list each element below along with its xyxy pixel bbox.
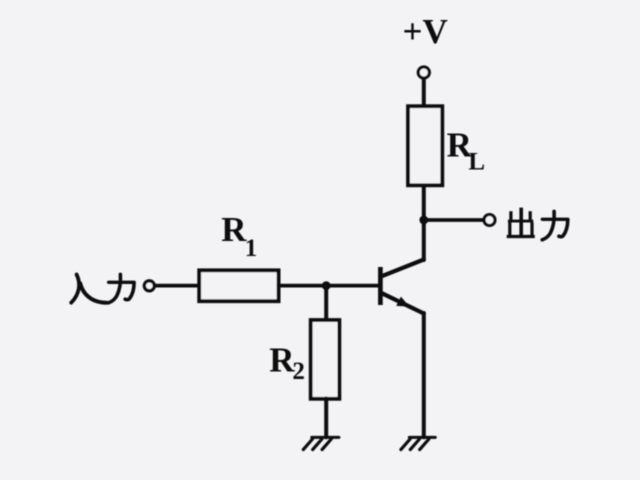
wire RL to collector node bbox=[422, 186, 426, 260]
wire R1 to base node bbox=[279, 284, 379, 288]
transistor Q1 emitter lead bbox=[382, 293, 424, 313]
label 入力 (input) bbox=[71, 274, 134, 302]
svg-text:+V: +V bbox=[403, 12, 448, 51]
svg-text:R: R bbox=[221, 210, 247, 249]
出 lower-left vertical bbox=[508, 224, 511, 235]
svg-text:2: 2 bbox=[292, 358, 305, 385]
label RL bbox=[447, 126, 485, 176]
wire base node down to R2 bbox=[324, 286, 328, 321]
入 left-falling stroke bbox=[71, 275, 79, 303]
ground (R2 side) bbox=[303, 437, 339, 449]
出 bottom horizontal bbox=[508, 235, 533, 238]
svg-text:R: R bbox=[269, 340, 295, 379]
出 center vertical bbox=[519, 209, 523, 235]
出 upper-right vertical bbox=[529, 213, 532, 220]
svg-text:1: 1 bbox=[245, 235, 257, 262]
transistor Q1 emitter arrow bbox=[396, 297, 409, 307]
resistor R2 bbox=[311, 320, 340, 399]
wire emitter to ground bbox=[422, 313, 426, 437]
出 upper-left vertical bbox=[509, 213, 512, 220]
svg-text:L: L bbox=[468, 149, 485, 176]
label 出力 (output) bbox=[508, 209, 568, 239]
入 right-falling stroke bbox=[80, 283, 106, 302]
label R2 bbox=[269, 340, 305, 384]
node base junction bbox=[322, 281, 331, 290]
resistor RL bbox=[408, 106, 442, 185]
wire R2 to ground bbox=[324, 399, 328, 438]
transistor Q1 base bar bbox=[378, 267, 383, 305]
ground (emitter side) bbox=[401, 437, 435, 449]
resistor R1 bbox=[199, 270, 278, 301]
wire input terminal to R1 bbox=[156, 284, 199, 288]
出 lower-right vertical bbox=[530, 224, 533, 235]
力 of 入力 bbox=[109, 274, 135, 302]
出 middle horizontal bbox=[509, 220, 531, 223]
wire node to output terminal bbox=[424, 218, 483, 222]
力 of 出力 bbox=[542, 211, 568, 239]
node collector junction bbox=[419, 216, 428, 225]
transistor Q1 collector lead bbox=[382, 260, 424, 277]
output terminal bbox=[484, 215, 495, 226]
wire +V terminal to RL bbox=[422, 80, 426, 106]
+V supply terminal bbox=[418, 67, 429, 78]
input terminal bbox=[144, 281, 154, 291]
label R1 bbox=[221, 210, 257, 262]
